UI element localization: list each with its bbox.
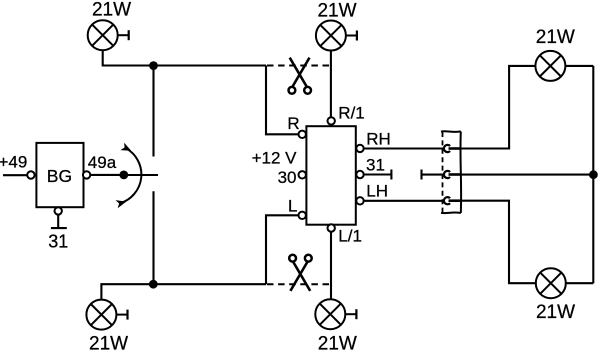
svg-text:21W: 21W <box>317 1 356 22</box>
svg-text:+49: +49 <box>0 153 27 172</box>
svg-text:R/1: R/1 <box>338 103 364 122</box>
svg-text:30: 30 <box>278 168 297 187</box>
svg-text:RH: RH <box>366 130 391 149</box>
svg-text:R: R <box>287 114 299 133</box>
svg-text:21W: 21W <box>536 27 575 48</box>
svg-text:L/1: L/1 <box>338 227 362 246</box>
svg-text:+12 V: +12 V <box>252 149 298 168</box>
svg-text:21W: 21W <box>92 0 131 20</box>
svg-text:31: 31 <box>48 232 68 252</box>
svg-text:21W: 21W <box>318 333 357 351</box>
svg-text:21W: 21W <box>89 334 128 351</box>
svg-text:L: L <box>288 196 297 215</box>
svg-text:31: 31 <box>366 156 385 175</box>
svg-text:LH: LH <box>366 182 388 201</box>
svg-text:49a: 49a <box>88 153 117 172</box>
svg-text:BG: BG <box>47 166 72 186</box>
svg-text:21W: 21W <box>536 302 575 323</box>
